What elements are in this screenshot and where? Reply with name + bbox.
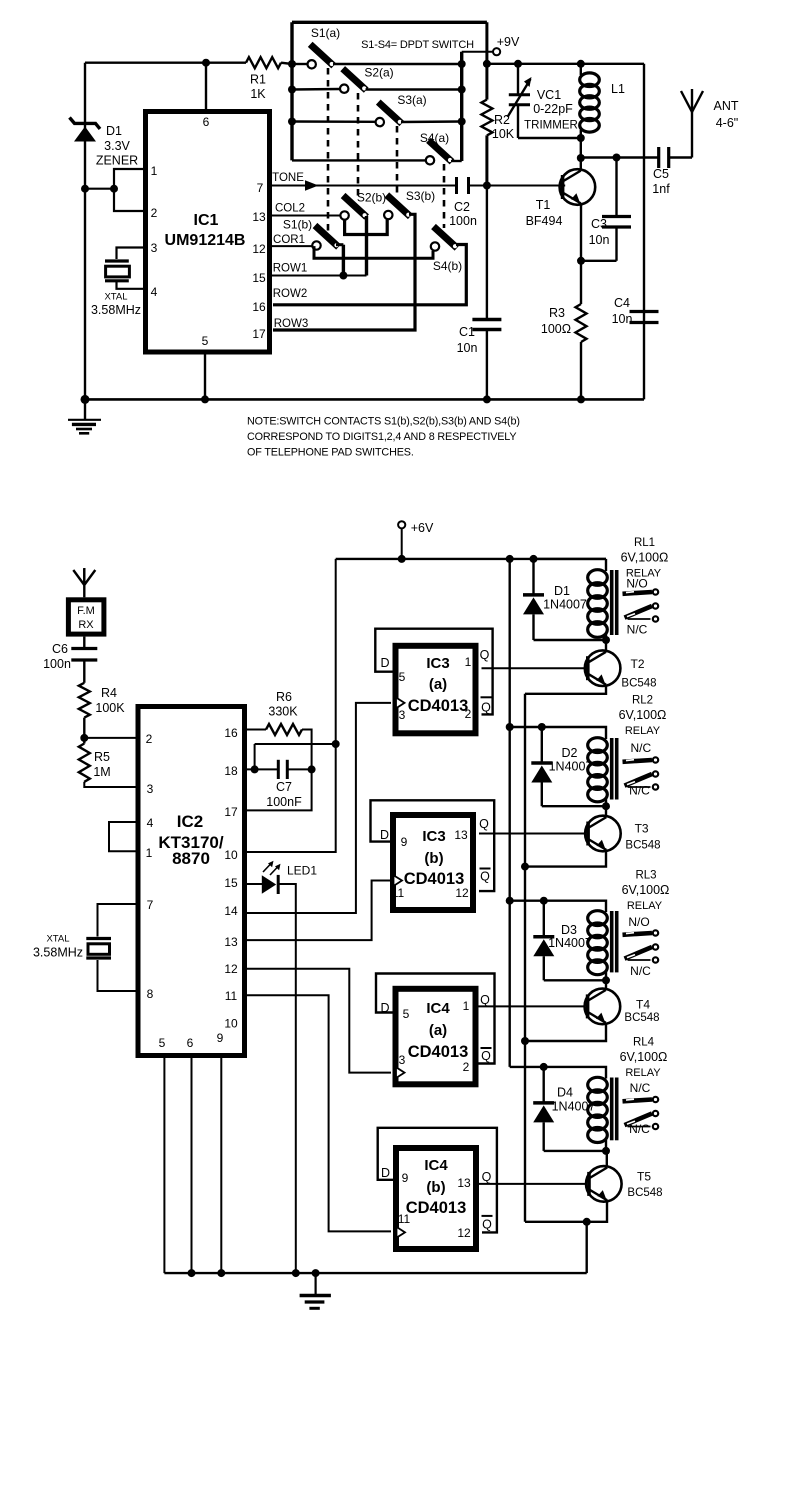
svg-text:10n: 10n <box>457 341 478 355</box>
svg-text:1N4007: 1N4007 <box>548 936 592 950</box>
node T3 emitter rail <box>521 863 529 871</box>
wire bracket IC1 pins 1 and 2 <box>114 169 143 211</box>
svg-text:ROW2: ROW2 <box>273 288 308 300</box>
svg-text:11: 11 <box>225 989 238 1003</box>
svg-text:6V,100Ω: 6V,100Ω <box>620 1050 668 1064</box>
svg-text:ROW1: ROW1 <box>273 263 308 275</box>
svg-text:11: 11 <box>392 886 405 900</box>
node S3a plus rail <box>458 118 466 126</box>
svg-text:100K: 100K <box>95 701 125 715</box>
svg-text:BC548: BC548 <box>627 1187 662 1199</box>
svg-text:R1: R1 <box>250 73 266 87</box>
svg-text:TRIMMER: TRIMMER <box>524 120 578 132</box>
svg-text:+6V: +6V <box>411 521 434 535</box>
svg-text:4: 4 <box>151 285 158 299</box>
svg-text:3.58MHz: 3.58MHz <box>91 303 141 317</box>
svg-text:RELAY: RELAY <box>625 1067 661 1079</box>
wire IC2 pin 9 to ground <box>220 1058 222 1273</box>
svg-text:6V,100Ω: 6V,100Ω <box>621 551 669 565</box>
wire FM RX to C6 <box>83 637 85 649</box>
svg-text:17: 17 <box>252 327 266 341</box>
wire R5 to IC2 pin 3 <box>84 782 137 787</box>
relay RL4 coil <box>588 1077 608 1092</box>
svg-text:2: 2 <box>151 206 158 220</box>
ground symbol bottom circuit <box>300 1273 331 1308</box>
trimmer capacitor VC1 <box>508 77 532 117</box>
wire IC2 pin 14 to IC3a clock <box>245 703 391 913</box>
switch S4(a) <box>429 140 453 162</box>
svg-text:12: 12 <box>457 1226 471 1240</box>
svg-text:RELAY: RELAY <box>627 900 663 912</box>
svg-text:L1: L1 <box>611 82 625 96</box>
svg-text:S4(b): S4(b) <box>433 259 462 273</box>
node T5 ground drop <box>583 1218 591 1226</box>
relay RL2 coil <box>588 738 608 753</box>
node junction bracket <box>110 185 118 193</box>
svg-text:9: 9 <box>217 1031 224 1045</box>
node C1 ground <box>483 395 491 403</box>
svg-text:S2(b): S2(b) <box>357 191 386 205</box>
svg-text:C5: C5 <box>653 167 669 181</box>
svg-text:Q: Q <box>480 993 490 1007</box>
wire IC2 pin 11 to IC4b clock <box>245 995 391 1231</box>
wire T2 collector <box>605 640 607 652</box>
svg-text:RL1: RL1 <box>634 537 655 549</box>
svg-text:RL3: RL3 <box>635 870 656 882</box>
IC4a clock chevron <box>396 1067 405 1078</box>
svg-text:ANT: ANT <box>714 99 739 113</box>
IC3b D loop <box>371 800 495 891</box>
svg-text:10K: 10K <box>492 127 515 141</box>
switch S1(a) <box>310 44 334 66</box>
relay RL2 core <box>610 738 614 800</box>
node +9V rail branch <box>483 60 491 68</box>
wire IC2 pin 15 to LED1 <box>245 883 262 885</box>
svg-text:LED1: LED1 <box>287 864 317 878</box>
svg-text:Q: Q <box>481 1049 491 1063</box>
svg-text:R5: R5 <box>94 750 110 764</box>
svg-text:3: 3 <box>399 1053 406 1067</box>
svg-text:S2(a): S2(a) <box>364 66 393 80</box>
node +6V dist rail <box>506 555 514 563</box>
transistor T2 <box>585 650 621 686</box>
wire T5 emitter <box>525 1201 607 1222</box>
relay RL2 contacts <box>623 760 653 762</box>
svg-text:C1: C1 <box>459 325 475 339</box>
wire S1b pivot drop to ROW1 <box>336 243 343 246</box>
svg-text:IC3: IC3 <box>426 655 449 672</box>
svg-text:13: 13 <box>454 828 468 842</box>
wire RL3 feed <box>510 901 606 912</box>
wire C5 to antenna <box>669 156 692 158</box>
svg-text:10n: 10n <box>589 233 610 247</box>
svg-text:3.3V: 3.3V <box>104 139 130 153</box>
svg-text:C7: C7 <box>276 780 292 794</box>
switch S3(b) <box>387 195 411 217</box>
node S3a left rail <box>288 118 296 126</box>
terminal +6V <box>401 528 403 559</box>
svg-text:3: 3 <box>147 782 154 796</box>
svg-text:CD4013: CD4013 <box>408 697 469 715</box>
wire bottom ground rail <box>164 1272 586 1274</box>
svg-text:13: 13 <box>224 935 238 949</box>
svg-text:N/C: N/C <box>629 784 650 798</box>
IC1 box <box>146 112 270 353</box>
svg-text:7: 7 <box>147 898 154 912</box>
inductor L1 <box>580 64 582 75</box>
transistor T5 <box>586 1166 622 1202</box>
trimmer VC1 wires <box>517 64 519 95</box>
node D1 top <box>530 555 538 563</box>
svg-text:6: 6 <box>203 115 210 129</box>
wire C3 top to collector line <box>615 158 617 217</box>
svg-text:VC1: VC1 <box>537 88 561 102</box>
svg-text:15: 15 <box>224 876 238 890</box>
zener diode D1 <box>70 118 101 142</box>
svg-text:S1(a): S1(a) <box>311 26 340 40</box>
node R4 R5 pin2 <box>80 734 88 742</box>
wire R1 to switch rail <box>281 63 292 64</box>
wire base node down to C1 <box>486 186 488 320</box>
wire ROW1 pin 15 <box>272 275 367 277</box>
svg-text:15: 15 <box>252 271 266 285</box>
svg-text:ROW3: ROW3 <box>274 318 309 330</box>
svg-text:18: 18 <box>224 764 238 778</box>
node S2a plus rail <box>458 86 466 94</box>
wire IC2 pin 5 to ground <box>163 1058 165 1273</box>
svg-text:6: 6 <box>187 1036 194 1050</box>
wire S3a contact line <box>292 120 376 123</box>
antenna FM RX <box>83 569 85 597</box>
IC4a Q output to T4 base <box>479 1005 586 1007</box>
relay RL3 contacts <box>623 933 653 935</box>
svg-text:T2: T2 <box>630 657 644 671</box>
node RL2 coil bottom <box>602 802 610 810</box>
svg-text:9: 9 <box>401 835 408 849</box>
wire IC1 pin 5 to ground <box>204 354 206 399</box>
antenna ANT <box>681 91 692 112</box>
svg-text:N/O: N/O <box>626 577 647 591</box>
node LED ground <box>292 1269 300 1277</box>
wire LED1 to ground drop <box>278 884 296 1273</box>
svg-text:BF494: BF494 <box>526 214 563 228</box>
svg-text:N/O: N/O <box>628 915 649 929</box>
svg-text:12: 12 <box>252 242 266 256</box>
svg-text:5: 5 <box>159 1036 166 1050</box>
svg-text:5: 5 <box>202 334 209 348</box>
resistor R1 <box>246 57 281 68</box>
node C7 right <box>308 765 316 773</box>
node junction pin6 top <box>202 59 210 67</box>
svg-text:BC548: BC548 <box>625 840 660 852</box>
svg-text:16: 16 <box>224 726 238 740</box>
svg-text:100Ω: 100Ω <box>541 322 571 336</box>
resistor R4 <box>79 683 90 718</box>
wire IC2 pin 13 to IC3b clock <box>245 881 391 941</box>
terminal +9V <box>493 48 500 55</box>
node pin18 C7 left <box>251 765 259 773</box>
resistor R2 <box>481 100 492 136</box>
svg-text:CD4013: CD4013 <box>408 1043 469 1061</box>
svg-text:S1(b): S1(b) <box>283 218 312 232</box>
wire RL2 coil tail <box>605 798 607 807</box>
svg-text:1M: 1M <box>93 765 110 779</box>
wire T5 ground drop <box>586 1222 588 1273</box>
svg-text:T1: T1 <box>536 198 551 212</box>
node D2 top <box>538 723 546 731</box>
wire C7 right to node <box>287 768 311 770</box>
mech link S2 dashed <box>357 93 360 201</box>
relay RL3 coil <box>588 911 608 926</box>
wire S2b pivot drop to ROW1 <box>365 216 368 276</box>
ground symbol top circuit <box>68 395 101 433</box>
node T1 base junction <box>483 182 491 190</box>
svg-text:(a): (a) <box>429 1022 447 1039</box>
svg-text:1N4007: 1N4007 <box>549 760 593 774</box>
svg-text:3.58MHz: 3.58MHz <box>33 946 83 960</box>
wire IC1 pin 6 to top rail <box>205 63 207 110</box>
mech link S3 dashed <box>396 126 399 198</box>
diode D2 <box>541 727 543 763</box>
svg-text:9: 9 <box>402 1171 409 1185</box>
resistor R5 <box>79 744 90 782</box>
node collector junction <box>577 154 585 162</box>
wire COR1 branch to S4b <box>314 246 433 258</box>
svg-text:OF TELEPHONE PAD SWITCHES.: OF TELEPHONE PAD SWITCHES. <box>247 447 414 459</box>
svg-text:1nf: 1nf <box>652 182 670 196</box>
svg-text:16: 16 <box>252 300 266 314</box>
node junction pin5 ground <box>201 395 209 403</box>
wire R6 right to C7 node <box>302 730 312 770</box>
IC3a D loop <box>375 629 492 715</box>
node RL4 coil bottom <box>602 1147 610 1155</box>
wire RL3 coil tail <box>605 970 607 980</box>
svg-text:C3: C3 <box>591 217 607 231</box>
wire T3 emitter <box>525 850 606 867</box>
svg-text:D1: D1 <box>106 124 122 138</box>
IC3a clock chevron <box>396 698 405 709</box>
svg-text:Q: Q <box>482 1170 492 1184</box>
svg-text:(a): (a) <box>429 676 447 693</box>
wire main +9V vertical rail <box>485 22 488 99</box>
svg-text:6V,100Ω: 6V,100Ω <box>622 883 670 897</box>
wire IC2 pin 16 to R6 <box>245 729 266 731</box>
wire RL4 feed <box>510 1067 606 1079</box>
node D3 top <box>540 897 548 905</box>
IC2 box <box>138 707 245 1056</box>
svg-text:D2: D2 <box>562 746 578 760</box>
wire T4 collector <box>605 980 607 990</box>
svg-text:ZENER: ZENER <box>96 154 138 168</box>
wire S4b pivot drop to ROW2 <box>273 245 466 305</box>
svg-text:IC2: IC2 <box>177 812 203 831</box>
wire antenna stem <box>691 112 693 158</box>
svg-text:C2: C2 <box>454 200 470 214</box>
svg-text:8870: 8870 <box>172 849 210 868</box>
svg-text:1K: 1K <box>250 87 266 101</box>
node RL3 feed <box>506 897 514 905</box>
wire node to IC2 pin 2 <box>84 737 137 739</box>
svg-text:D: D <box>380 656 389 670</box>
svg-text:D: D <box>380 828 389 842</box>
resistor R6 <box>266 724 302 735</box>
crystal XTAL2 <box>86 939 111 959</box>
svg-text:5: 5 <box>399 670 406 684</box>
svg-text:C4: C4 <box>614 296 630 310</box>
wire +9V rail to VC1 L1 C4 <box>487 63 644 65</box>
IC3b clock chevron <box>394 875 403 886</box>
wire VC1 bottom to L1 bottom <box>518 137 581 139</box>
svg-text:D3: D3 <box>561 923 577 937</box>
svg-text:1: 1 <box>463 999 470 1013</box>
wire RL4 coil tail <box>605 1138 607 1151</box>
diode D4 <box>543 1067 545 1103</box>
wire S3b pivot drop to ROW3 <box>273 214 415 330</box>
mech link S4 dashed <box>443 164 446 228</box>
wire pin18 riser <box>254 744 256 769</box>
svg-text:2: 2 <box>465 707 472 721</box>
svg-text:1: 1 <box>146 846 153 860</box>
svg-text:D4: D4 <box>557 1086 573 1100</box>
node RL2 feed <box>506 723 514 731</box>
svg-text:R6: R6 <box>276 690 292 704</box>
flip-flop IC4(a) box <box>396 989 476 1085</box>
wire RL2 feed <box>510 727 606 739</box>
svg-text:100nF: 100nF <box>266 795 302 809</box>
svg-text:C6: C6 <box>52 642 68 656</box>
relay RL3 core <box>610 911 614 972</box>
svg-text:IC4: IC4 <box>424 1157 448 1174</box>
svg-text:100n: 100n <box>43 657 71 671</box>
mech link S1 dashed <box>327 68 330 232</box>
svg-text:1: 1 <box>465 655 472 669</box>
svg-text:S3(a): S3(a) <box>397 93 426 107</box>
node S1b ROW1 <box>339 272 347 280</box>
wire feedback link to VDD rail <box>255 743 336 745</box>
svg-text:Q: Q <box>482 1217 492 1231</box>
wire switch array top line <box>292 21 487 24</box>
wire C1 to ground <box>486 330 488 400</box>
wire T5 collector <box>606 1151 608 1167</box>
svg-text:RL4: RL4 <box>633 1037 655 1049</box>
node S2a left rail <box>288 86 296 94</box>
svg-text:S4(a): S4(a) <box>420 131 449 145</box>
svg-text:IC4: IC4 <box>426 1000 450 1017</box>
transistor T1 <box>560 169 596 205</box>
svg-text:13: 13 <box>457 1176 471 1190</box>
wire R3 to ground <box>580 342 582 399</box>
wire S1a pivot to plus rail <box>333 63 462 65</box>
wire C3 bottom link <box>581 260 617 262</box>
IC3a Q output to T2 base <box>482 667 587 669</box>
svg-text:RL2: RL2 <box>632 695 653 707</box>
diode D1 <box>532 559 534 595</box>
node VDD rail feedback <box>332 740 340 748</box>
node L1 bottom <box>577 134 585 142</box>
svg-text:IC1: IC1 <box>194 212 219 229</box>
node C3 top branch <box>613 154 621 162</box>
wire COR1 pin 12 <box>272 245 312 247</box>
svg-text:17: 17 <box>224 805 238 819</box>
wire S3a pivot to plus rail <box>401 120 462 123</box>
wire R4 to node <box>83 718 85 744</box>
svg-text:6V,100Ω: 6V,100Ω <box>619 708 667 722</box>
svg-text:RELAY: RELAY <box>625 725 661 737</box>
svg-text:N/C: N/C <box>630 741 651 755</box>
node emitter C3 branch <box>577 257 585 265</box>
wire C6 to R4 <box>83 660 85 683</box>
svg-text:R4: R4 <box>101 686 117 700</box>
svg-text:7: 7 <box>257 181 264 195</box>
svg-text:TONE: TONE <box>272 172 304 184</box>
svg-text:N/C: N/C <box>627 623 648 637</box>
svg-text:5: 5 <box>403 1007 410 1021</box>
svg-text:CORRESPOND TO DIGITS1,2,4 AND: CORRESPOND TO DIGITS1,2,4 AND 8 RESPECTI… <box>247 431 516 443</box>
svg-text:1: 1 <box>151 164 158 178</box>
wire RL1 feed <box>534 558 607 560</box>
switch S2(b) <box>343 196 367 218</box>
crystal XTAL2 wires <box>98 904 139 937</box>
wire IC2 pins 4-1 bracket <box>109 822 138 851</box>
LED1 <box>262 861 281 894</box>
FM RX box <box>68 600 104 634</box>
wire S2a pivot to plus rail <box>366 88 462 90</box>
svg-text:T4: T4 <box>636 998 650 1012</box>
svg-text:12: 12 <box>224 962 238 976</box>
relay RL4 contacts <box>623 1100 653 1102</box>
svg-text:4-6": 4-6" <box>716 116 739 130</box>
svg-text:COL2: COL2 <box>275 203 305 215</box>
node S1a plus rail <box>458 60 466 68</box>
wire T1 base from node <box>487 185 565 187</box>
wire S2a contact line <box>292 88 340 91</box>
node RL1 coil bottom <box>602 636 610 644</box>
svg-text:Q: Q <box>480 870 490 884</box>
node +6V stem <box>398 555 406 563</box>
wire T2 emitter <box>525 685 606 694</box>
wire right vertical +9V to C4 to ground <box>643 64 645 400</box>
flip-flop IC4(b) box <box>396 1148 476 1249</box>
svg-text:+9V: +9V <box>497 35 520 49</box>
svg-text:14: 14 <box>224 904 238 918</box>
svg-text:N/C: N/C <box>630 964 651 978</box>
svg-text:D1: D1 <box>554 584 570 598</box>
node pin9 ground <box>217 1269 225 1277</box>
wire S4a pivot to plus rail <box>451 160 462 162</box>
wire R2 to base node <box>485 135 488 185</box>
svg-text:13: 13 <box>252 210 266 224</box>
svg-text:100n: 100n <box>449 214 477 228</box>
crystal XTAL1 wires <box>117 248 144 260</box>
svg-text:NOTE:SWITCH CONTACTS S1(b),S2(: NOTE:SWITCH CONTACTS S1(b),S2(b),S3(b) A… <box>247 416 520 428</box>
wire IC2 pin 12 to IC4a clock <box>245 969 391 1073</box>
wire T4 emitter <box>525 1023 606 1041</box>
wire T3 collector <box>605 806 607 817</box>
svg-text:1N4007: 1N4007 <box>543 598 587 612</box>
wire IC2 pin 6 to ground <box>191 1058 193 1273</box>
svg-text:10: 10 <box>224 1017 238 1031</box>
svg-text:10n: 10n <box>612 312 633 326</box>
svg-text:T3: T3 <box>635 822 649 836</box>
relay RL1 contacts <box>623 592 653 594</box>
IC3b Q output to T3 base <box>479 833 586 835</box>
relay RL1 core <box>610 570 614 635</box>
svg-text:COR1: COR1 <box>273 234 305 246</box>
wire S1a contact line <box>292 63 308 65</box>
wire switch array left rail <box>290 22 293 160</box>
wire TONE pin 7 <box>272 185 457 187</box>
switch S4(b) <box>434 227 458 249</box>
